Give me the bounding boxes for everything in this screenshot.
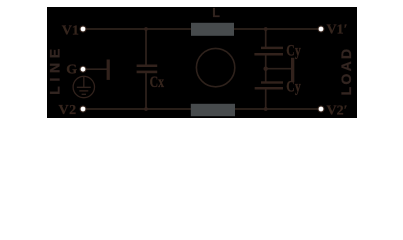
node junction Cy bottom xyxy=(264,107,268,111)
wire Cy branch middle xyxy=(265,55,267,82)
enclosure box xyxy=(47,7,357,118)
node junction Cx bottom xyxy=(144,107,148,111)
wire Cy branch lower xyxy=(265,89,267,109)
wire Y-cap midpoint to chassis xyxy=(266,68,292,70)
node junction Cy top xyxy=(264,27,268,31)
choke L bottom winding xyxy=(191,104,235,116)
chassis bar right (Cy midpoint) xyxy=(291,58,294,82)
svg-text:V1′: V1′ xyxy=(327,23,348,38)
svg-text:V2′: V2′ xyxy=(327,104,348,119)
svg-text:Cx: Cx xyxy=(150,74,164,92)
capacitor Cx plates xyxy=(137,65,158,74)
node junction Cy midpoint xyxy=(264,67,268,71)
wire top rail xyxy=(86,28,318,30)
choke L core xyxy=(196,48,234,86)
chassis bar left (G) xyxy=(107,60,110,80)
svg-text:Cy: Cy xyxy=(286,42,300,60)
wire Cx branch lower xyxy=(145,73,147,109)
terminal V2' xyxy=(318,106,325,113)
terminal V2 xyxy=(80,106,87,113)
svg-text:LOAD: LOAD xyxy=(338,49,354,96)
svg-text:LINE: LINE xyxy=(46,49,62,95)
wire Cx branch upper xyxy=(145,29,147,65)
capacitor Cy bottom plates xyxy=(255,81,283,89)
node junction Cx top xyxy=(144,27,148,31)
terminal G xyxy=(80,66,87,73)
terminal V1 xyxy=(80,26,87,33)
svg-text:L: L xyxy=(212,6,220,20)
svg-text:V1: V1 xyxy=(62,23,79,38)
wire Cy branch upper xyxy=(265,29,267,47)
capacitor Cy top plates xyxy=(254,47,283,56)
terminal V1' xyxy=(318,26,325,33)
svg-text:G: G xyxy=(66,63,77,78)
svg-text:V2: V2 xyxy=(59,103,77,118)
wire G to chassis xyxy=(86,68,107,70)
wire bottom rail xyxy=(86,108,318,110)
choke L top winding xyxy=(191,23,234,36)
earth ground symbol xyxy=(73,76,94,97)
